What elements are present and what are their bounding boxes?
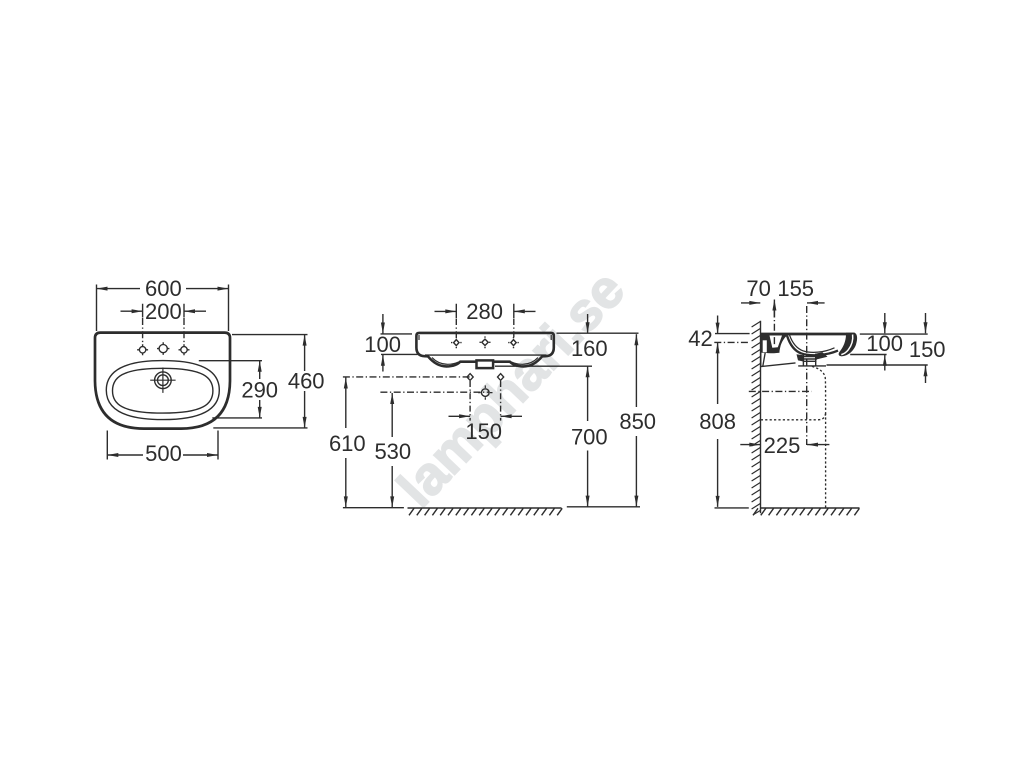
svg-text:70: 70	[746, 276, 770, 301]
faucet hole left (top view)	[137, 344, 148, 355]
svg-text:530: 530	[374, 439, 411, 464]
svg-text:100: 100	[866, 331, 903, 356]
mounting hole left (diamond)	[467, 374, 473, 381]
svg-text:280: 280	[466, 299, 503, 324]
svg-text:225: 225	[764, 433, 801, 458]
dimension 850	[567, 334, 640, 507]
pedestal dashed outline	[761, 366, 826, 507]
svg-text:850: 850	[619, 409, 656, 434]
tap ledge mass (section)	[761, 334, 789, 353]
drain block (front)	[477, 360, 494, 368]
bowl section inner line	[790, 335, 835, 352]
deck joint line	[425, 354, 547, 356]
dimension 150	[449, 415, 523, 417]
svg-text:150: 150	[465, 419, 502, 444]
svg-text:610: 610	[329, 431, 366, 456]
dimension 530	[391, 393, 393, 507]
svg-text:700: 700	[571, 425, 608, 450]
tap hole (white)	[770, 336, 783, 348]
dimension 290	[199, 361, 262, 418]
tap axis centreline	[773, 311, 775, 347]
dimension 225	[740, 444, 829, 446]
dimension 610	[343, 378, 404, 508]
svg-text:160: 160	[571, 336, 608, 361]
apron inner contour left	[432, 358, 459, 365]
svg-text:200: 200	[145, 299, 182, 324]
deck faucet hole center (front)	[480, 336, 491, 348]
washbasin top-view outline	[95, 333, 230, 429]
rim hook right (section)	[839, 333, 857, 357]
dimension 70/155 arrows	[741, 300, 825, 318]
dimension 42	[715, 316, 750, 334]
drain axis centreline	[806, 306, 808, 445]
mounting hole axis left vertical	[469, 381, 471, 421]
dimension 200	[121, 304, 207, 345]
mid height centreline	[749, 390, 812, 392]
fixing slot (white)	[763, 340, 767, 352]
svg-text:808: 808	[699, 409, 736, 434]
floor line (side view)	[761, 507, 860, 509]
dimension 808	[715, 342, 749, 508]
drain centre (front)	[478, 385, 492, 399]
svg-text:290: 290	[241, 377, 278, 402]
dimension 600	[97, 285, 229, 332]
svg-text:150: 150	[909, 337, 946, 362]
faucet hole right (top view)	[179, 344, 190, 355]
centreline through drain	[380, 391, 489, 393]
rim corner nicks	[419, 335, 551, 340]
wall hatch	[752, 321, 761, 514]
basin rim top line (section)	[761, 333, 855, 336]
drain hole (top view)	[150, 368, 175, 393]
basin inner oval	[113, 368, 213, 413]
mounting hole axis right vertical	[500, 381, 502, 421]
dimension 100/150 (side) leaders	[827, 313, 928, 383]
deck faucet hole left (front)	[451, 337, 462, 348]
dimension 460	[213, 335, 307, 428]
basin outer oval	[106, 361, 219, 420]
faucet hole center (top view)	[157, 342, 169, 355]
underside lines (section)	[761, 353, 796, 367]
bowl section outer	[787, 336, 838, 356]
washbasin front outline	[416, 333, 553, 367]
floor hatch (side view)	[753, 508, 859, 515]
dimension 160	[495, 314, 639, 421]
svg-text:500: 500	[145, 441, 182, 466]
apron inner contour right	[511, 358, 538, 365]
wall face line	[760, 321, 762, 514]
drain fitting (section)	[798, 354, 826, 366]
svg-text:155: 155	[777, 276, 814, 301]
svg-text:42: 42	[688, 326, 712, 351]
dimension 280	[435, 304, 536, 339]
centreline through mounting holes	[343, 376, 471, 378]
dimension 700	[587, 451, 589, 507]
dimension 100 (front left)	[381, 314, 418, 372]
floor hatch (front view)	[408, 508, 563, 515]
mounting hole right (diamond)	[498, 374, 504, 381]
deck faucet hole right (front)	[508, 337, 519, 348]
svg-text:100: 100	[364, 332, 401, 357]
dimension 500	[107, 431, 218, 460]
svg-text:600: 600	[145, 276, 182, 301]
svg-text:460: 460	[288, 368, 325, 393]
drain fitting shoulders	[797, 354, 804, 361]
fixing axis centreline (42)	[714, 341, 750, 343]
